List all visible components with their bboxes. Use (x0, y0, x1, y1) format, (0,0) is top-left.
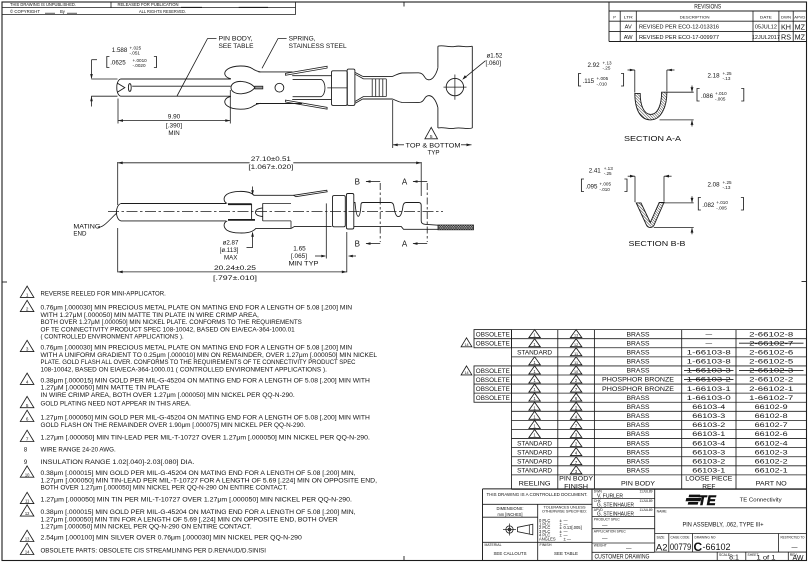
svg-text:DESCRIPTION: DESCRIPTION (680, 15, 710, 20)
svg-text:00779: 00779 (670, 542, 692, 552)
svg-text:1 of 1: 1 of 1 (757, 555, 777, 562)
note 12 (20, 505, 34, 516)
svg-text:66103-1: 66103-1 (692, 431, 725, 438)
svg-text:IN WIRE CRIMP AREA, BOTH OVER: IN WIRE CRIMP AREA, BOTH OVER 1.27μm [.0… (41, 393, 296, 399)
svg-text:BRASS: BRASS (627, 468, 651, 475)
svg-text:0.38μm [.000015] MIN GOLD PER: 0.38μm [.000015] MIN GOLD PER MIL-G-4520… (41, 510, 356, 516)
svg-text:2-66102-8: 2-66102-8 (749, 331, 793, 338)
svg-text:STANDARD: STANDARD (517, 458, 552, 465)
svg-text:—: — (706, 331, 713, 338)
svg-text:2-66102-1: 2-66102-1 (749, 386, 793, 393)
svg-text:NAME: NAME (657, 509, 668, 513)
svg-text:STAINLESS STEEL: STAINLESS STEEL (289, 43, 348, 50)
parts table row 8 (529, 393, 540, 401)
wire barrel (top view) (363, 75, 393, 77)
svg-text:1-66103-3: 1-66103-3 (687, 368, 731, 375)
svg-text:-.005: -.005 (716, 205, 727, 210)
bottom border centering tick (403, 556, 405, 561)
svg-text:STANDARD: STANDARD (517, 350, 552, 357)
svg-text:11JUL89: 11JUL89 (640, 490, 653, 494)
svg-text:-66102: -66102 (703, 542, 731, 552)
svg-text:—: — (602, 536, 608, 542)
svg-text:ALL RIGHTS RESERVED.: ALL RIGHTS RESERVED. (139, 9, 186, 14)
svg-text:INSULATION RANGE 1.02[.040]-2.: INSULATION RANGE 1.02[.040]-2.03[.080] D… (41, 460, 195, 466)
body bottom edge (side) (255, 227, 291, 229)
svg-text:[1.067±.020]: [1.067±.020] (248, 164, 293, 171)
svg-text:66102-6: 66102-6 (755, 431, 788, 438)
svg-text:MZ: MZ (795, 33, 806, 42)
svg-text:BRASS: BRASS (627, 359, 651, 366)
svg-text:REELING: REELING (519, 481, 551, 488)
svg-text:DRAWING NO: DRAWING NO (695, 535, 716, 539)
svg-text:7: 7 (26, 437, 29, 442)
barrel ribs (371, 79, 373, 97)
controlled document cell (483, 503, 593, 505)
svg-text:-.25: -.25 (604, 171, 612, 176)
svg-text:-.13: -.13 (723, 185, 731, 190)
svg-text:1-66103-1: 1-66103-1 (687, 386, 731, 393)
svg-text:RS: RS (781, 33, 791, 42)
svg-text:11: 11 (574, 361, 578, 365)
note 11 (20, 492, 34, 503)
svg-text:+.010: +.010 (715, 91, 727, 96)
svg-text:-.0020: -.0020 (133, 63, 146, 68)
svg-text:TE Connectivity: TE Connectivity (740, 498, 783, 504)
dim top & bottom typ (392, 100, 394, 148)
svg-text:8:1: 8:1 (729, 555, 739, 562)
svg-text:STANDARD: STANDARD (517, 468, 552, 475)
svg-text:—: — (792, 545, 798, 551)
svg-text:11: 11 (25, 499, 30, 504)
svg-text:ø2.87: ø2.87 (223, 240, 239, 247)
svg-text:—: — (602, 523, 608, 529)
svg-text:SPRING,: SPRING, (289, 36, 316, 43)
barrel transition flare (355, 73, 363, 77)
svg-text:108-10042, BASED ON EIA/ECA-36: 108-10042, BASED ON EIA/ECA-364-1000.01 … (41, 367, 328, 373)
dim 9.90 min (117, 99, 119, 124)
svg-text:5: 5 (26, 403, 29, 408)
svg-text:13: 13 (574, 334, 578, 338)
svg-text:10: 10 (574, 370, 578, 374)
spring bulb upper lobe (225, 66, 261, 79)
svg-text:PHOSPHOR BRONZE: PHOSPHOR BRONZE (602, 377, 675, 384)
dim 2.18 height (667, 91, 694, 93)
svg-text:1-66103-8: 1-66103-8 (687, 350, 731, 357)
svg-text:OTHERWISE SPECIFIED:: OTHERWISE SPECIFIED: (542, 509, 587, 513)
svg-text:BRASS: BRASS (627, 368, 651, 375)
section cut A-A (426, 183, 428, 242)
spring hole (275, 83, 284, 92)
svg-text:BRASS: BRASS (627, 413, 651, 420)
svg-text:TYP: TYP (427, 150, 439, 157)
svg-text:CAGE CODE: CAGE CODE (671, 535, 691, 539)
svg-text:66103-3: 66103-3 (692, 413, 725, 420)
svg-text:( CONTROLLED ENVIRONMENT APPLI: ( CONTROLLED ENVIRONMENT APPLICATIONS ). (41, 335, 185, 341)
svg-text:BRASS: BRASS (627, 431, 651, 438)
svg-text:C: C (694, 540, 703, 554)
svg-text:PRODUCT SPEC: PRODUCT SPEC (594, 517, 621, 521)
svg-text:1.27μm [.000050] MIN TIN-LEAD: 1.27μm [.000050] MIN TIN-LEAD PER MIL-T-… (41, 478, 378, 484)
svg-text:10: 10 (25, 472, 30, 477)
svg-text:20.24±0.25: 20.24±0.25 (214, 265, 257, 272)
svg-text:RESTRICTED TO: RESTRICTED TO (781, 535, 805, 539)
svg-text:4: 4 (26, 380, 29, 385)
svg-text:—: — (706, 340, 713, 347)
svg-text:12: 12 (574, 343, 578, 347)
svg-text:DIMENSIONS:: DIMENSIONS: (497, 506, 524, 511)
svg-text:WIRE RANGE 24-20 AWG.: WIRE RANGE 24-20 AWG. (41, 448, 117, 454)
material/finish row (483, 541, 593, 543)
svg-text:AW: AW (792, 555, 803, 562)
D tab (256, 208, 263, 217)
note 10 (20, 466, 34, 477)
svg-text:3: 3 (26, 347, 29, 352)
body top edge and lance (side) (253, 194, 293, 196)
svg-text:1-66103-0: 1-66103-0 (687, 395, 731, 402)
svg-text:AV: AV (625, 25, 632, 31)
note 1 (20, 286, 34, 297)
seam through collar (327, 87, 347, 89)
svg-text:BOTH OVER 1.27μM [.000050] MIN: BOTH OVER 1.27μM [.000050] MIN NICKEL PL… (41, 320, 302, 326)
svg-text:2-66102-7: 2-66102-7 (749, 340, 793, 347)
svg-text:13: 13 (25, 537, 30, 542)
svg-text:66103-2: 66103-2 (692, 422, 725, 429)
svg-text:66103-4: 66103-4 (692, 440, 725, 447)
svg-text:1.27μm [.000050] MIN TIN FOR A: 1.27μm [.000050] MIN TIN FOR A LENGTH OF… (41, 517, 339, 523)
svg-text:-.25: -.25 (603, 66, 611, 71)
svg-text:SECTION B-B: SECTION B-B (629, 241, 686, 248)
svg-text:WITH A UNIFORM GRADIENT TO 0.2: WITH A UNIFORM GRADIENT TO 0.25μm [.0000… (41, 353, 378, 359)
left border centering tick (2, 281, 7, 283)
svg-text:A2: A2 (656, 542, 668, 553)
collar (top view) (332, 71, 348, 106)
svg-text:REVISED PER ECO-17-009977: REVISED PER ECO-17-009977 (639, 35, 719, 41)
svg-text:14: 14 (464, 343, 468, 347)
profile after collar: dip, plateaus (354, 203, 438, 226)
svg-text:WEIGHT: WEIGHT (594, 543, 607, 547)
svg-text:-.005: -.005 (715, 96, 726, 101)
svg-text:2.41: 2.41 (589, 168, 602, 175)
parts table row 11 (529, 420, 540, 428)
svg-text:OBSOLETE: OBSOLETE (476, 395, 510, 402)
svg-text:.0625: .0625 (110, 60, 126, 67)
svg-text:THIS DRAWING IS A CONTROLLED D: THIS DRAWING IS A CONTROLLED DOCUMENT. (487, 492, 588, 498)
svg-text:GOLD PLATING NEED NOT APPEAR I: GOLD PLATING NEED NOT APPEAR IN THIS ARE… (41, 402, 192, 408)
svg-text:LTR: LTR (624, 15, 633, 20)
svg-text:OBSOLETE PARTS: OBSOLETE CIS S: OBSOLETE PARTS: OBSOLETE CIS STREAMLININ… (41, 549, 267, 555)
svg-text:-.010: -.010 (599, 187, 610, 192)
svg-text:66102-4: 66102-4 (755, 440, 788, 447)
pin seam line (132, 85, 231, 87)
parts table row 5 (529, 366, 540, 374)
revisions table (608, 2, 610, 42)
name cell (655, 507, 807, 509)
svg-text:9.90: 9.90 (168, 114, 181, 121)
lower tine blade (286, 100, 328, 109)
svg-text:REVERSE REELED FOR MINI-APPLIC: REVERSE REELED FOR MINI-APPLICATOR. (41, 291, 167, 297)
svg-text:P: P (613, 15, 616, 20)
svg-text:MATING: MATING (73, 223, 100, 230)
svg-text:ø1.52: ø1.52 (487, 53, 503, 60)
svg-text:WITH 1.27μM [.000050] MIN MATT: WITH 1.27μM [.000050] MIN MATTE TIN PLAT… (41, 313, 260, 319)
svg-text:V. FURLER: V. FURLER (597, 494, 623, 500)
dim 2.92 width (634, 70, 636, 93)
note 7 (20, 430, 34, 441)
right border centering tick (802, 281, 807, 283)
svg-text:+.005: +.005 (597, 76, 609, 81)
bottom profile after collar (354, 227, 438, 230)
svg-text:2.08: 2.08 (708, 182, 721, 189)
svg-text:11JUL89: 11JUL89 (640, 499, 653, 503)
parts table row 1 (529, 330, 540, 338)
svg-text:TE: TE (698, 493, 717, 508)
strip neck hooks (393, 68, 438, 80)
parts table row 12 (529, 430, 540, 438)
svg-text:PIN BODY: PIN BODY (621, 481, 656, 488)
note 5 (20, 396, 34, 407)
svg-text:OBSOLETE: OBSOLETE (476, 386, 510, 393)
svg-text:[.065]: [.065] (291, 253, 307, 260)
svg-text:0.38μm [.000015] MIN GOLD PER: 0.38μm [.000015] MIN GOLD PER MIL-G-4520… (41, 378, 370, 384)
side view centerline (108, 211, 443, 213)
upper tine blade (286, 66, 328, 75)
svg-text:14: 14 (25, 550, 30, 555)
svg-text:1.65: 1.65 (293, 245, 306, 252)
svg-text:1.27μM [.000050] MIN MATTE TIN: 1.27μM [.000050] MIN MATTE TIN PLATE (41, 386, 170, 392)
svg-text:2: 2 (26, 307, 29, 312)
svg-text:66103-1: 66103-1 (692, 468, 725, 475)
svg-text:BRASS: BRASS (627, 331, 651, 338)
svg-text:THIS DRAWING IS UNPUBLISHED.: THIS DRAWING IS UNPUBLISHED. (10, 2, 76, 7)
dim dia 2.87 max (252, 187, 254, 195)
svg-text:MIN: MIN (168, 130, 179, 137)
pin tip V notch (117, 83, 125, 92)
svg-text:+.010: +.010 (716, 200, 728, 205)
svg-text:A: A (402, 240, 408, 249)
note 13 (20, 530, 34, 541)
dim 27.10 overall length (117, 162, 119, 205)
svg-text:[.797±.010]: [.797±.010] (213, 275, 257, 282)
svg-text:PART NO: PART NO (756, 481, 787, 488)
parts table row 4 (529, 357, 540, 365)
svg-text:MATERIAL: MATERIAL (485, 543, 502, 547)
third angle projection symbol (506, 526, 513, 533)
note 6 (20, 410, 34, 421)
svg-text:BOTH OVER 1.27μm [.000050] MIN: BOTH OVER 1.27μm [.000050] MIN NICKEL PE… (41, 486, 288, 492)
svg-text:OBSOLETE: OBSOLETE (476, 377, 510, 384)
svg-text:66103-2: 66103-2 (692, 458, 725, 465)
svg-text:OF TE CONNECTIVITY PRODUCT SPE: OF TE CONNECTIVITY PRODUCT SPEC 108-1004… (41, 327, 296, 333)
svg-text:2.54μm [.000100] MIN SILVER OV: 2.54μm [.000100] MIN SILVER OVER 0.76μm … (41, 536, 303, 542)
svg-text:PIN BODY: PIN BODY (559, 476, 594, 483)
svg-text:14: 14 (464, 371, 468, 375)
svg-text:STANDARD: STANDARD (517, 449, 552, 456)
svg-text:± —: ± — (564, 536, 572, 541)
svg-text:BRASS: BRASS (627, 395, 651, 402)
svg-text:B: B (355, 240, 360, 249)
svg-text:SEE CALLOUTS: SEE CALLOUTS (494, 551, 528, 557)
svg-text:LOOSE PIECE: LOOSE PIECE (685, 476, 733, 483)
svg-text:66103-3: 66103-3 (692, 449, 725, 456)
svg-text:[.060]: [.060] (486, 60, 502, 67)
svg-text:27.10±0.51: 27.10±0.51 (251, 156, 292, 163)
svg-text:STANDARD: STANDARD (517, 440, 552, 447)
parts table row 2 (529, 339, 540, 347)
note 14 (20, 543, 34, 554)
svg-text:12JUL2017: 12JUL2017 (752, 35, 780, 41)
svg-text:APPLICATION SPEC: APPLICATION SPEC (594, 530, 627, 534)
parts table (512, 329, 807, 331)
svg-text:-.010: -.010 (597, 81, 608, 86)
jaw upper edge (228, 203, 252, 205)
svg-text:2-66102-6: 2-66102-6 (749, 350, 793, 357)
bulb upper lobe (side) (224, 191, 254, 203)
svg-text:66102-7: 66102-7 (755, 422, 788, 429)
svg-text:APVD: APVD (794, 15, 805, 20)
svg-text:.086: .086 (701, 93, 714, 100)
svg-text:DWN: DWN (781, 15, 791, 20)
dim 20.24 (117, 228, 119, 272)
svg-text:OBSOLETE: OBSOLETE (476, 341, 510, 348)
spring bulb lower lobe (225, 97, 261, 110)
svg-text:05JUL12: 05JUL12 (755, 25, 777, 31)
svg-text:BRASS: BRASS (627, 404, 651, 411)
dim 2.41 width (634, 176, 636, 202)
note 3 (20, 340, 34, 351)
svg-text:+.005: +.005 (599, 182, 611, 187)
collar (side view) (333, 196, 346, 227)
top border centering tick (403, 2, 405, 7)
carrier strip (437, 46, 439, 68)
svg-text:mm [INCHES]: mm [INCHES] (498, 512, 523, 517)
svg-text:-.13: -.13 (723, 76, 731, 81)
svg-text:66102-8: 66102-8 (755, 413, 788, 420)
svg-text:1.27μm [.000050] MIN TIN PER M: 1.27μm [.000050] MIN TIN PER MIL-T-10727… (41, 498, 353, 504)
size/cage/drawing row (655, 533, 807, 535)
spring body edges (259, 71, 293, 73)
svg-text:[.390]: [.390] (166, 123, 182, 130)
svg-text:GOLD FLASH ON THE REMAINDER OV: GOLD FLASH ON THE REMAINDER OVER 1.90μm … (41, 423, 306, 429)
svg-text:ANGLES: ANGLES (539, 536, 556, 541)
svg-text:OBSOLETE: OBSOLETE (476, 332, 510, 339)
svg-text:2-66102-5: 2-66102-5 (749, 359, 793, 366)
svg-text:PHOSPHOR BRONZE: PHOSPHOR BRONZE (602, 386, 675, 393)
svg-text:BRASS: BRASS (627, 449, 651, 456)
svg-text:PIN ASSEMBLY, .062, TYPE III+: PIN ASSEMBLY, .062, TYPE III+ (683, 521, 764, 528)
obsolete tag box rows 1-2 (474, 330, 512, 348)
svg-text:12: 12 (25, 511, 30, 516)
pin rod (top view) (117, 79, 121, 96)
svg-text:REVISED PER ECO-12-013316: REVISED PER ECO-12-013316 (639, 25, 719, 31)
svg-text:2-66102-2: 2-66102-2 (749, 377, 793, 384)
svg-text:BRASS: BRASS (627, 458, 651, 465)
strip pilot hole (446, 78, 463, 95)
svg-text:1-66103-2: 1-66103-2 (687, 377, 731, 384)
section B-B V cross-section (636, 203, 664, 228)
svg-text:[ø.113]: [ø.113] (220, 247, 239, 254)
svg-text:66102-9: 66102-9 (755, 404, 788, 411)
svg-text:.115: .115 (583, 78, 595, 85)
note 4 (20, 373, 34, 384)
svg-text:1.27μm [.000050] MIN TIN-LEAD: 1.27μm [.000050] MIN TIN-LEAD PER MIL-T-… (41, 436, 371, 442)
svg-text:0.76μm [.000030] MIN PRECIOUS: 0.76μm [.000030] MIN PRECIOUS METAL PLAT… (41, 306, 353, 312)
parts table row 6 (529, 375, 540, 383)
svg-text:BRASS: BRASS (627, 340, 651, 347)
title block (482, 489, 484, 561)
svg-text:MIN TYP: MIN TYP (289, 261, 319, 268)
crimp fork channel (292, 75, 331, 77)
svg-text:66102-2: 66102-2 (755, 458, 788, 465)
dim 2.08 height (664, 202, 694, 204)
svg-text:REVISIONS: REVISIONS (694, 5, 721, 11)
svg-text:BRASS: BRASS (627, 350, 651, 357)
parts table row 9 (529, 402, 540, 410)
svg-text:RELEASED FOR PUBLICATION: RELEASED FOR PUBLICATION (118, 2, 179, 7)
spring bulb middle (pin tip inside) (231, 81, 255, 93)
svg-text:MAX: MAX (224, 254, 237, 261)
note 2 (20, 300, 34, 311)
svg-text:2-66102-3: 2-66102-3 (749, 368, 793, 375)
signature rows (592, 498, 655, 500)
svg-text:© COPYRIGHT: © COPYRIGHT (10, 9, 40, 14)
svg-text:66102-1: 66102-1 (755, 468, 788, 475)
svg-text:PLATE. GOLD FLASH ALL OVER. CO: PLATE. GOLD FLASH ALL OVER. CONFORMS TO … (41, 360, 357, 366)
fork tongue (293, 78, 321, 80)
scale/sheet/rev row (716, 552, 718, 560)
svg-text:1-66102-7: 1-66102-7 (749, 395, 793, 402)
svg-text:B: B (355, 177, 360, 186)
svg-text:END: END (73, 231, 87, 238)
pin tip tab (255, 86, 263, 89)
section A-A U cross-section (635, 92, 667, 120)
svg-text:0.38μm [.000015] MIN GOLD PER: 0.38μm [.000015] MIN GOLD PER MIL-G-4520… (41, 471, 356, 477)
svg-text:2.18: 2.18 (708, 73, 721, 80)
dim 1.65 min typ (325, 203, 327, 258)
svg-text:1.27μm [.000050] MIN NICKEL PE: 1.27μm [.000050] MIN NICKEL PER QQ-N-290… (41, 525, 253, 531)
svg-text:MZ: MZ (795, 22, 806, 31)
svg-text:11: 11 (574, 352, 578, 356)
svg-text:1-66103-8: 1-66103-8 (687, 359, 731, 366)
svg-text:66102-3: 66102-3 (755, 449, 788, 456)
obsolete tag box rows 5-8 (474, 366, 512, 402)
pin rod (side view) (116, 204, 121, 221)
svg-text:—: — (626, 545, 632, 551)
svg-text:1.588: 1.588 (112, 47, 128, 54)
wire hatched (438, 225, 474, 230)
svg-text:BRASS: BRASS (627, 440, 651, 447)
svg-text:0.76μm [.000030] MIN PRECIOUS: 0.76μm [.000030] MIN PRECIOUS METAL PLAT… (41, 346, 353, 352)
svg-text:-.051: -.051 (130, 51, 141, 56)
parts table row 7 (529, 384, 540, 392)
svg-text:PIN BODY,: PIN BODY, (219, 36, 253, 43)
svg-text:.095: .095 (585, 183, 598, 190)
svg-text:KH: KH (781, 22, 791, 31)
svg-text:5: 5 (430, 134, 433, 140)
svg-text:66103-4: 66103-4 (692, 404, 725, 411)
svg-text:CUSTOMER DRAWING: CUSTOMER DRAWING (595, 554, 650, 561)
svg-text:AW: AW (624, 35, 634, 41)
svg-text:DATE: DATE (760, 15, 772, 20)
svg-text:SECTION A-A: SECTION A-A (624, 136, 681, 143)
svg-text:6: 6 (26, 417, 29, 422)
svg-text:TOP & BOTTOM: TOP & BOTTOM (406, 142, 461, 149)
flag triangle 5 (425, 127, 438, 138)
svg-text:2.92: 2.92 (588, 62, 601, 69)
flag 14 next to row 5 (461, 366, 472, 375)
svg-text:A: A (402, 177, 408, 186)
svg-text:OBSOLETE: OBSOLETE (476, 368, 510, 375)
svg-text:BRASS: BRASS (627, 422, 651, 429)
